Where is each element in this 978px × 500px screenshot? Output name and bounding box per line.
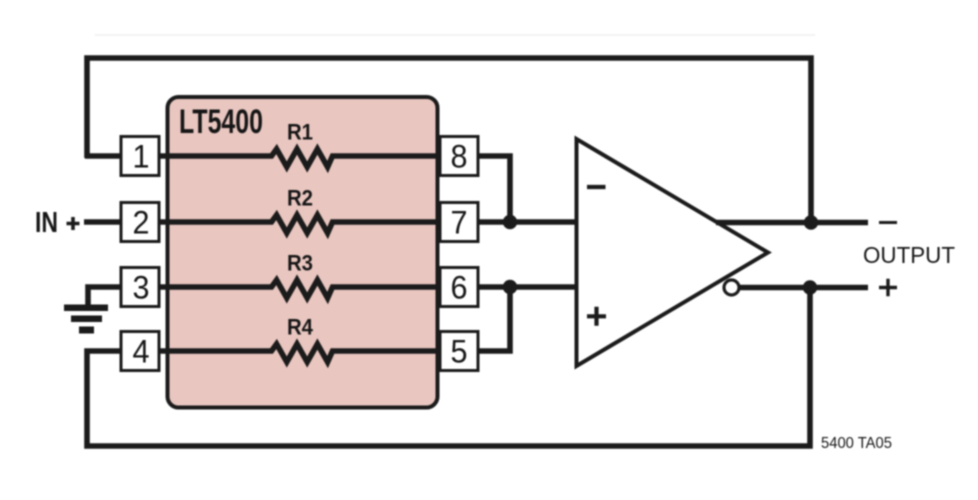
svg-text:R4: R4 bbox=[287, 315, 313, 340]
svg-text:R2: R2 bbox=[287, 186, 313, 211]
svg-text:1: 1 bbox=[133, 139, 150, 175]
svg-text:6: 6 bbox=[451, 270, 468, 306]
svg-text:5: 5 bbox=[451, 334, 468, 370]
svg-text:5400 TA05: 5400 TA05 bbox=[821, 435, 892, 452]
svg-text:LT5400: LT5400 bbox=[179, 103, 263, 141]
svg-text:R3: R3 bbox=[287, 251, 313, 276]
svg-text:4: 4 bbox=[133, 334, 150, 370]
svg-text:8: 8 bbox=[451, 139, 468, 175]
svg-text:2: 2 bbox=[133, 205, 150, 241]
svg-text:OUTPUT: OUTPUT bbox=[863, 242, 955, 268]
svg-text:3: 3 bbox=[133, 270, 150, 306]
svg-text:IN: IN bbox=[35, 207, 58, 239]
svg-text:R1: R1 bbox=[287, 120, 313, 145]
svg-text:7: 7 bbox=[451, 205, 468, 241]
